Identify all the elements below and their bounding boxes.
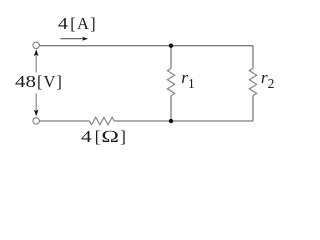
voltage arrow shaft upper bbox=[35, 52, 37, 73]
current arrow shaft bbox=[60, 38, 85, 40]
label 4[Ohm] bbox=[81, 127, 126, 147]
voltage arrowhead up bbox=[34, 49, 39, 56]
wire bottom left segment bbox=[39, 120, 89, 122]
wire right vertical top bbox=[252, 46, 254, 68]
terminal bottom circle bbox=[33, 118, 39, 124]
label 48[V] bbox=[15, 72, 63, 92]
terminal top circle bbox=[33, 42, 39, 48]
wire r1 branch bottom bbox=[170, 96, 172, 121]
voltage arrow shaft lower bbox=[35, 94, 37, 115]
resistor r2 zigzag bbox=[249, 68, 256, 95]
node junction bottom bbox=[169, 119, 173, 123]
wire top horizontal bbox=[39, 45, 253, 47]
resistor 4ohm zigzag bbox=[90, 117, 115, 124]
wire right vertical bottom bbox=[252, 96, 254, 121]
voltage arrowhead down bbox=[34, 110, 39, 117]
wire r1 branch top bbox=[170, 46, 172, 68]
node junction top bbox=[169, 44, 173, 48]
wire bottom right segment bbox=[114, 120, 253, 122]
current arrowhead right bbox=[82, 37, 88, 41]
label 4[A] bbox=[58, 14, 97, 34]
label r2 bbox=[261, 68, 274, 92]
resistor r1 zigzag bbox=[167, 68, 174, 95]
label r1 bbox=[181, 68, 194, 92]
